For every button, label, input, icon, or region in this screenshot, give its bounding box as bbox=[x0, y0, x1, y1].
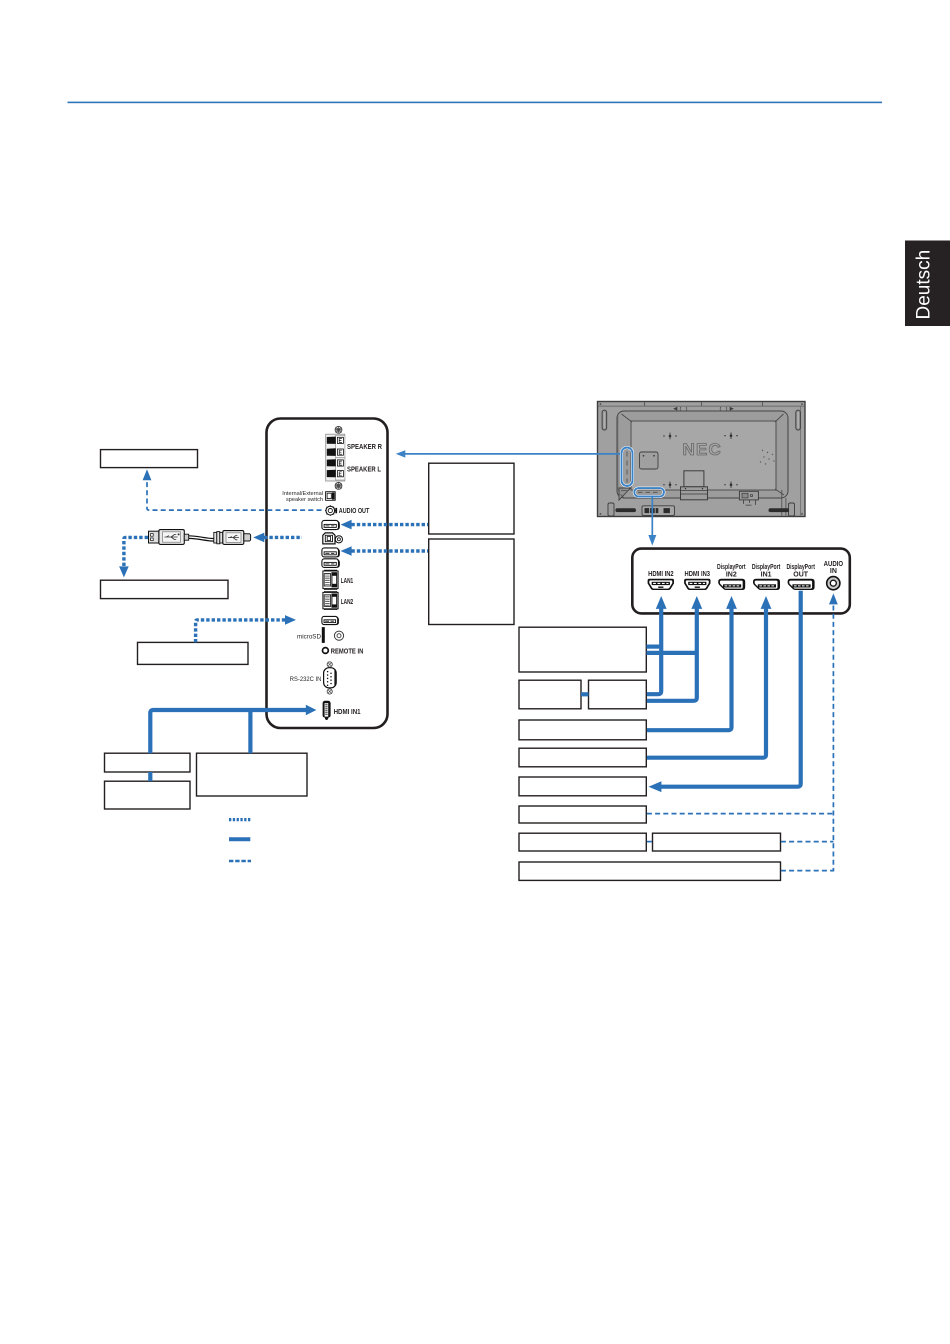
device box L1 (audio out target) bbox=[101, 450, 198, 468]
device box B6 (audio in source 1) bbox=[519, 806, 646, 823]
device box B4 (dp in1 source) bbox=[519, 748, 646, 767]
label SPEAKER L bbox=[347, 466, 382, 473]
wire HDMI IN1 trunk bbox=[150, 705, 316, 753]
right handle bbox=[796, 410, 801, 430]
svg-text:AUDIO OUT: AUDIO OUT bbox=[339, 508, 370, 515]
highlight oval bottom connectors bbox=[634, 488, 664, 496]
wire monitor bottom-strip callout bbox=[648, 496, 656, 545]
label microSD bbox=[297, 633, 321, 640]
label HDMI IN3 bbox=[685, 571, 711, 578]
wire DisplayPort IN1 bbox=[647, 596, 771, 758]
device box L3 (usb port source) bbox=[138, 642, 249, 664]
wire HDMI IN2 branch B1 bbox=[647, 644, 662, 648]
svg-text:REMOTE IN: REMOTE IN bbox=[331, 648, 364, 655]
device box L2 (usb cable target) bbox=[101, 580, 229, 598]
device box R1 (usb target 1) bbox=[429, 463, 514, 534]
label Internal/External speaker switch bbox=[282, 491, 323, 503]
label REMOTE IN bbox=[331, 648, 364, 655]
svg-text:LAN1: LAN1 bbox=[341, 578, 354, 585]
wire monitor side-panel callout bbox=[396, 450, 620, 457]
svg-text:SPEAKER R: SPEAKER R bbox=[347, 444, 382, 451]
wire DisplayPort OUT bbox=[649, 591, 801, 792]
svg-text:LAN2: LAN2 bbox=[341, 599, 354, 606]
svg-text:speaker switch: speaker switch bbox=[286, 497, 323, 503]
svg-text:IN2: IN2 bbox=[726, 571, 737, 578]
wire AUDIO OUT dashed bbox=[143, 469, 322, 510]
wire USB cable dotted left to L2 bbox=[119, 537, 148, 577]
wire HDMI IN3 branch B1 bbox=[647, 651, 697, 655]
legend dotted line bbox=[229, 818, 251, 821]
USB port 1 bbox=[322, 520, 340, 529]
device box L4 (hdmi source a) bbox=[105, 753, 191, 772]
USB cable drawing bbox=[149, 530, 251, 545]
wire HDMI IN3 bbox=[647, 596, 702, 701]
LAN1 port bbox=[323, 570, 338, 589]
wire AUDIO IN branch B6 bbox=[647, 813, 834, 815]
internal/external speaker switch icon bbox=[326, 492, 336, 501]
HDMI IN2 port bbox=[648, 579, 674, 590]
label HDMI IN1 bbox=[334, 709, 361, 716]
monitor rear view bbox=[598, 402, 806, 517]
AUDIO OUT jack bbox=[325, 505, 337, 516]
screw beside microSD bbox=[334, 631, 343, 640]
device box L6 (hdmi source c) bbox=[197, 753, 308, 796]
left connector panel outline bbox=[267, 419, 388, 729]
label AUDIO IN bbox=[824, 561, 844, 575]
bottom io box bbox=[739, 491, 758, 505]
svg-text:Internal/External: Internal/External bbox=[282, 491, 323, 497]
wire AUDIO IN branch B7b bbox=[781, 841, 834, 843]
device box L5 (hdmi source b) bbox=[105, 781, 191, 809]
wire USB dotted to R1 bbox=[341, 520, 428, 530]
header rule bbox=[68, 102, 883, 104]
screw above speaker terminal bbox=[335, 426, 342, 433]
left foot bbox=[608, 503, 636, 516]
device box B2b bbox=[589, 680, 647, 709]
label DisplayPort OUT bbox=[786, 564, 815, 578]
svg-text:DisplayPort: DisplayPort bbox=[786, 564, 815, 571]
wire USB cable dotted right bbox=[253, 533, 302, 543]
USB port 2 bbox=[322, 548, 340, 557]
left handle bbox=[602, 410, 607, 430]
device box R2 (usb target 2) bbox=[429, 539, 514, 625]
svg-text:AUDIO: AUDIO bbox=[824, 561, 844, 568]
USB port 3 bbox=[322, 559, 340, 568]
right column lines bbox=[782, 490, 786, 516]
right foot bbox=[769, 503, 795, 516]
svg-text:Deutsch: Deutsch bbox=[914, 250, 935, 320]
device box B3 (dp in2 source) bbox=[519, 720, 646, 740]
wire HDMI IN2 bbox=[647, 596, 667, 694]
microSD slot bbox=[322, 627, 325, 643]
svg-text:DisplayPort: DisplayPort bbox=[752, 564, 781, 571]
device box B8 (audio in source 3) bbox=[519, 862, 781, 880]
speaker hole dots bbox=[760, 450, 775, 465]
LAN2 port bbox=[323, 592, 338, 610]
highlight oval side connectors bbox=[622, 448, 633, 487]
recess frame bbox=[617, 411, 788, 498]
HDMI IN3 port bbox=[684, 579, 710, 590]
screw below speaker terminal bbox=[335, 482, 342, 489]
label HDMI IN2 bbox=[648, 571, 674, 578]
RS-232C screw bottom bbox=[327, 689, 332, 694]
svg-text:OUT: OUT bbox=[793, 571, 809, 578]
device box B7b bbox=[653, 833, 781, 851]
label LAN2 bbox=[341, 599, 354, 606]
bottom connector strip outline bbox=[632, 549, 850, 614]
DisplayPort OUT port bbox=[788, 579, 815, 590]
label DisplayPort IN1 bbox=[752, 564, 781, 578]
wire HDMI IN1 branch L4-L5 bbox=[148, 772, 152, 781]
stand bracket bbox=[681, 471, 708, 500]
RS-232C screw top bbox=[327, 662, 332, 667]
speaker terminal block bbox=[326, 434, 345, 481]
svg-text:HDMI IN1: HDMI IN1 bbox=[334, 709, 361, 716]
device box B5 (dp out target) bbox=[519, 777, 646, 796]
Deutsch language tab bbox=[905, 241, 950, 327]
legend dashed line bbox=[229, 860, 251, 863]
wire B2a-B2b link bbox=[581, 692, 589, 696]
svg-text:microSD: microSD bbox=[297, 633, 321, 640]
label SPEAKER R bbox=[347, 444, 382, 451]
device box B1 (hdmi sources) bbox=[519, 627, 646, 672]
svg-text:NEC: NEC bbox=[683, 440, 723, 459]
device box B7a (audio in source 2) bbox=[519, 833, 646, 851]
DisplayPort IN1 port bbox=[753, 579, 780, 590]
USB-B port bbox=[323, 533, 343, 544]
device box B2a bbox=[519, 680, 581, 709]
top handle marks bbox=[674, 407, 733, 411]
NEC logo bbox=[683, 440, 723, 459]
DisplayPort IN2 port bbox=[718, 579, 745, 590]
svg-text:HDMI IN2: HDMI IN2 bbox=[648, 571, 674, 578]
vesa hole marks bbox=[663, 432, 737, 488]
label LAN1 bbox=[341, 578, 354, 585]
wire AUDIO IN branch B8 bbox=[781, 870, 834, 872]
label RS-232C IN bbox=[290, 676, 322, 683]
wire USB dotted to R2 bbox=[341, 546, 428, 556]
label DisplayPort IN2 bbox=[717, 564, 746, 578]
label AUDIO OUT bbox=[339, 508, 370, 515]
svg-text:SPEAKER L: SPEAKER L bbox=[347, 466, 382, 473]
bottom-left gusset bbox=[619, 488, 631, 500]
USB port 4 bbox=[322, 616, 339, 624]
option slot plate bbox=[640, 452, 659, 469]
svg-text:IN1: IN1 bbox=[761, 571, 772, 578]
RS-232C IN D-sub connector bbox=[324, 668, 337, 688]
wire HDMI IN1 branch L6 bbox=[248, 711, 252, 753]
monitor body bbox=[598, 402, 806, 517]
HDMI IN1 port bbox=[323, 701, 331, 720]
svg-text:HDMI IN3: HDMI IN3 bbox=[685, 571, 711, 578]
wire AUDIO IN dashed trunk bbox=[829, 593, 838, 870]
wire DisplayPort IN2 bbox=[647, 596, 737, 730]
AUDIO IN jack bbox=[827, 577, 840, 590]
svg-text:DisplayPort: DisplayPort bbox=[717, 564, 746, 571]
legend solid line bbox=[229, 837, 250, 841]
wire L3 dotted to USB port bbox=[196, 615, 296, 642]
REMOTE IN jack bbox=[323, 648, 329, 654]
svg-text:RS-232C IN: RS-232C IN bbox=[290, 676, 322, 683]
control key panel bbox=[642, 506, 675, 516]
wire B7a-B7b dashed link bbox=[647, 841, 653, 843]
svg-text:IN: IN bbox=[830, 568, 837, 575]
